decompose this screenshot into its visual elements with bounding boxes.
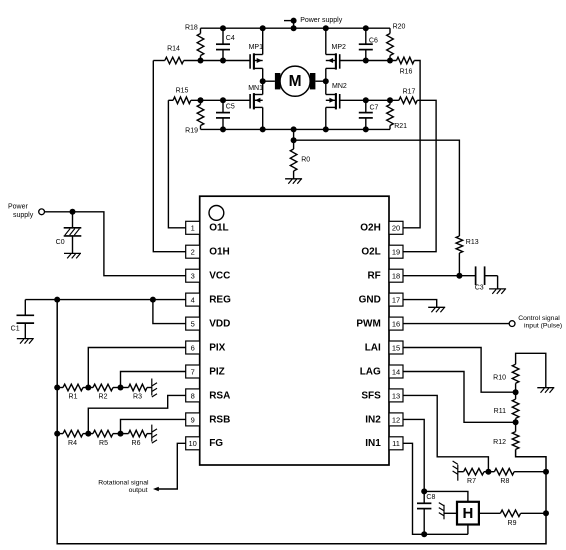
ground under C0: [64, 252, 81, 254]
svg-text:14: 14: [392, 367, 400, 376]
svg-text:O2H: O2H: [360, 223, 381, 234]
capacitor C4: [216, 28, 235, 60]
svg-text:R21: R21: [394, 123, 407, 130]
node: R13/RF junction: [456, 273, 462, 279]
svg-text:18: 18: [392, 272, 400, 281]
svg-text:SFS: SFS: [361, 390, 381, 401]
svg-text:Power supply: Power supply: [300, 17, 343, 24]
resistor R0: [290, 140, 310, 179]
open terminator after R3: [151, 379, 153, 396]
svg-text:LAG: LAG: [360, 366, 381, 377]
svg-text:7: 7: [191, 367, 195, 376]
wire: R16 to pin 20: [403, 61, 420, 228]
svg-text:C1: C1: [11, 326, 20, 333]
op-amp U1: motor driver IC body: [200, 196, 389, 465]
capacitor C5: [216, 100, 235, 129]
resistor R3: [129, 384, 148, 401]
svg-text:IN1: IN1: [365, 438, 381, 449]
svg-text:R2: R2: [99, 394, 108, 401]
transistor MN2: [326, 83, 347, 110]
svg-text:RSA: RSA: [209, 390, 230, 401]
svg-text:6: 6: [191, 343, 195, 352]
wire: R4-R5-R6 string: [57, 433, 63, 435]
resistor R20: [387, 23, 406, 60]
svg-text:PIX: PIX: [209, 342, 225, 353]
capacitor C3: [475, 266, 498, 291]
svg-text:RF: RF: [367, 271, 380, 282]
pin 2 box: [186, 245, 200, 258]
pin 16 box: [389, 317, 403, 330]
arrow: rotational signal output: [153, 487, 159, 492]
svg-text:R8: R8: [500, 478, 509, 485]
svg-text:R6: R6: [132, 440, 141, 447]
svg-text:R7: R7: [467, 478, 476, 485]
wire: MN1 gate line: [168, 99, 173, 101]
pin 8 box: [186, 389, 200, 402]
capacitor C0: [56, 212, 82, 254]
resistor R21: [387, 100, 407, 130]
svg-text:R1: R1: [69, 394, 78, 401]
node: sense node: [291, 137, 297, 143]
svg-text:2: 2: [191, 248, 195, 257]
svg-text:R20: R20: [393, 23, 406, 30]
svg-text:5: 5: [191, 320, 195, 329]
wire: R10 top to ground: [516, 353, 546, 387]
svg-text:R9: R9: [508, 520, 517, 527]
svg-text:C6: C6: [369, 38, 378, 45]
wire: REG to pin 5 (VDD): [153, 300, 186, 324]
node: bottom rail junctions: [220, 126, 369, 132]
svg-text:IN2: IN2: [365, 414, 381, 425]
wire: pin 7 (PIZ) to R2/R3: [121, 372, 186, 388]
wire: pin 18 (RF) line: [403, 275, 476, 277]
svg-text:GND: GND: [359, 295, 381, 306]
resistor R17: [399, 88, 417, 103]
power supply tap (top): [284, 17, 343, 28]
node: left motor terminal: [260, 78, 266, 84]
pin 6 box: [186, 341, 200, 354]
resistor R9: [479, 510, 546, 527]
ground after C3: [489, 288, 506, 290]
resistor R13: [456, 236, 479, 276]
svg-text:20: 20: [392, 224, 400, 233]
node: R11/R12 junction: [513, 419, 519, 425]
svg-text:8: 8: [191, 391, 195, 400]
svg-text:R3: R3: [133, 394, 142, 401]
open terminator after R6: [151, 425, 153, 442]
wire: bridge bottom rail: [201, 128, 391, 130]
svg-text:4: 4: [191, 296, 195, 305]
svg-text:C4: C4: [226, 35, 235, 42]
pin-1 index circle: [209, 206, 224, 221]
pin 11 box: [389, 437, 403, 450]
svg-text:MN1: MN1: [248, 85, 263, 92]
svg-text:17: 17: [392, 296, 400, 305]
wire: top supply rail: [201, 27, 391, 29]
node: R7/R8 junction: [485, 469, 491, 475]
resistor R4: [63, 430, 83, 447]
wire: left bus / bottom bus / right bus: [57, 300, 546, 544]
svg-text:M: M: [289, 73, 302, 90]
svg-text:R13: R13: [466, 239, 479, 246]
resistor R7: [458, 468, 489, 485]
svg-text:R15: R15: [176, 87, 189, 94]
wire: pin1 to R15: [168, 100, 185, 228]
pin 13 box: [389, 389, 403, 402]
wire: sense line to R13: [294, 140, 460, 236]
node: R10/R11 junction: [513, 389, 519, 395]
pin 15 box: [389, 341, 403, 354]
wire: pin 6 (PIX) to R1/R2: [88, 348, 185, 388]
svg-text:3: 3: [191, 272, 195, 281]
node: R9 on right bus: [543, 510, 549, 516]
pin 7 box: [186, 365, 200, 378]
control signal input terminal: [509, 321, 515, 327]
wire: MN2 gate line: [340, 99, 366, 101]
pin 18 box: [389, 269, 403, 282]
label: rotational signal output: [98, 480, 149, 494]
svg-text:R5: R5: [99, 440, 108, 447]
wire: REG line to pin 4: [25, 299, 185, 301]
label: control signal input: [518, 315, 562, 330]
svg-text:MP1: MP1: [249, 44, 264, 51]
wire: pin 13 (SFS) to R7/R8: [403, 395, 488, 471]
capacitor C7: [359, 100, 379, 129]
node: R8 on right bus: [543, 469, 549, 475]
transistor MN1: [248, 85, 263, 110]
resistor R1: [63, 384, 83, 401]
pin 20 box: [389, 221, 403, 234]
pin 17 box: [389, 293, 403, 306]
transistor MP2: [326, 44, 346, 70]
svg-text:C8: C8: [426, 494, 435, 501]
wire: power supply to pin 3 (VCC): [45, 212, 186, 276]
wire: pin 11 (IN1) to Hall bottom: [403, 443, 468, 534]
pin 5 box: [186, 317, 200, 330]
svg-text:VCC: VCC: [209, 271, 230, 282]
resistor R15: [173, 87, 191, 103]
node: C7/R21 on MN2 gate line: [363, 97, 393, 103]
resistor R12: [493, 422, 519, 449]
svg-text:REG: REG: [209, 295, 231, 306]
svg-text:O1H: O1H: [209, 247, 230, 258]
svg-text:R0: R0: [301, 156, 310, 163]
pin 4 box: [186, 293, 200, 306]
ground at pin 17: [428, 306, 445, 308]
svg-text:C5: C5: [226, 104, 235, 111]
resistor R11: [494, 392, 519, 422]
svg-text:output: output: [129, 487, 148, 494]
wire: pin 17 (GND): [403, 300, 437, 308]
resistor R6: [129, 430, 148, 447]
pin 10 box: [186, 437, 200, 450]
svg-text:O2L: O2L: [361, 247, 380, 258]
wire: MP1 gate line: [153, 60, 165, 62]
svg-text:PWM: PWM: [356, 319, 380, 330]
svg-text:supply: supply: [13, 212, 34, 219]
svg-text:O1L: O1L: [209, 223, 228, 234]
wire: R17 to pin 19: [403, 100, 436, 251]
ground under C1: [17, 338, 34, 340]
ground above R10: [537, 387, 554, 389]
motor M: [263, 66, 326, 96]
svg-text:1: 1: [191, 224, 195, 233]
node: top rail junctions: [220, 25, 369, 31]
resistor R8: [488, 468, 546, 485]
svg-text:R12: R12: [493, 439, 506, 446]
svg-text:RSB: RSB: [209, 414, 230, 425]
svg-text:R16: R16: [400, 68, 413, 75]
node: R19/C5 on MN1 gate line: [198, 97, 227, 103]
node: C8 bottom: [421, 531, 427, 537]
pin 1 box: [186, 221, 200, 234]
wire: MP2 gate line: [340, 60, 366, 62]
svg-text:LAI: LAI: [365, 342, 381, 353]
pin 9 box: [186, 413, 200, 426]
wire: left half-bridge drain column: [262, 28, 264, 54]
svg-text:R17: R17: [403, 88, 416, 95]
svg-text:PIZ: PIZ: [209, 366, 225, 377]
pin 3 box: [186, 269, 200, 282]
resistor R14: [165, 46, 184, 64]
ground under R0: [285, 178, 302, 180]
wire: pin 8 (RSA) to R4/R5: [88, 395, 185, 433]
resistor R5: [93, 430, 113, 447]
svg-text:R19: R19: [185, 127, 198, 134]
svg-text:12: 12: [392, 415, 400, 424]
open terminator before R7: [457, 465, 459, 481]
svg-text:R14: R14: [167, 46, 180, 53]
resistor R16: [397, 57, 415, 75]
wire: hall top lead: [424, 491, 468, 501]
wire: pin2 to R14: [153, 61, 185, 252]
wire: pin 15 (LAI) to R10/R11: [403, 348, 516, 393]
transistor MP1: [249, 44, 264, 70]
wire: hall bottom lead: [467, 525, 469, 535]
node: C6/R20 on MP2 gate line: [363, 58, 393, 64]
node: C0 tap: [70, 209, 76, 215]
hall element H: [444, 502, 479, 525]
svg-text:16: 16: [392, 320, 400, 329]
wire: pin 14 (LAG) to R11/R12: [403, 372, 516, 423]
node: REG junctions: [54, 297, 156, 303]
open terminator at hall left: [443, 505, 445, 520]
svg-text:R4: R4: [68, 440, 77, 447]
wire: R1-R2-R3 string: [57, 387, 63, 389]
node: C8 top: [421, 488, 427, 494]
capacitor C1: [11, 300, 34, 339]
svg-text:VDD: VDD: [209, 319, 230, 330]
resistor R10: [493, 364, 519, 392]
resistor R2: [93, 384, 113, 401]
pin 14 box: [389, 365, 403, 378]
wire: pin 9 (RSB) to R5/R6: [121, 419, 186, 433]
resistor R19: [185, 100, 204, 134]
svg-text:MP2: MP2: [332, 44, 347, 51]
node: R1 row junctions: [54, 385, 123, 391]
svg-text:Rotational signal: Rotational signal: [98, 480, 149, 487]
svg-text:Power: Power: [8, 204, 29, 211]
svg-text:FG: FG: [209, 438, 223, 449]
svg-text:19: 19: [392, 248, 400, 257]
svg-text:Control signal: Control signal: [518, 315, 560, 322]
svg-text:C3: C3: [475, 285, 484, 292]
resistor R18: [185, 24, 204, 60]
svg-text:R10: R10: [493, 375, 506, 382]
svg-text:9: 9: [191, 415, 195, 424]
svg-text:10: 10: [189, 439, 197, 448]
svg-text:15: 15: [392, 343, 400, 352]
capacitor C6: [359, 28, 378, 60]
svg-text:MN2: MN2: [332, 83, 347, 90]
svg-text:R18: R18: [185, 24, 198, 31]
node: right motor terminal: [323, 78, 329, 84]
svg-text:11: 11: [392, 439, 400, 448]
svg-text:H: H: [462, 505, 473, 522]
svg-text:13: 13: [392, 391, 400, 400]
wire: center tap to sense node: [293, 129, 295, 140]
svg-text:R11: R11: [494, 408, 506, 415]
capacitor C8: [417, 491, 435, 534]
wire: pin 10 (FG) rotational output: [158, 443, 186, 489]
wire: pin 12 (IN2) to C8/Hall top: [403, 419, 424, 491]
svg-text:C7: C7: [370, 105, 379, 112]
pin 19 box: [389, 245, 403, 258]
wire: right half-bridge drain column: [325, 28, 327, 54]
svg-text:C0: C0: [56, 239, 65, 246]
wire: pin 16 (PWM) control input: [403, 323, 509, 325]
node: R4 row junctions: [54, 431, 123, 437]
node: R18/C4 on MP1 gate line: [198, 58, 227, 64]
pin 12 box: [389, 413, 403, 426]
power supply input terminal: [8, 204, 44, 220]
svg-text:input (Pulse): input (Pulse): [524, 322, 562, 329]
